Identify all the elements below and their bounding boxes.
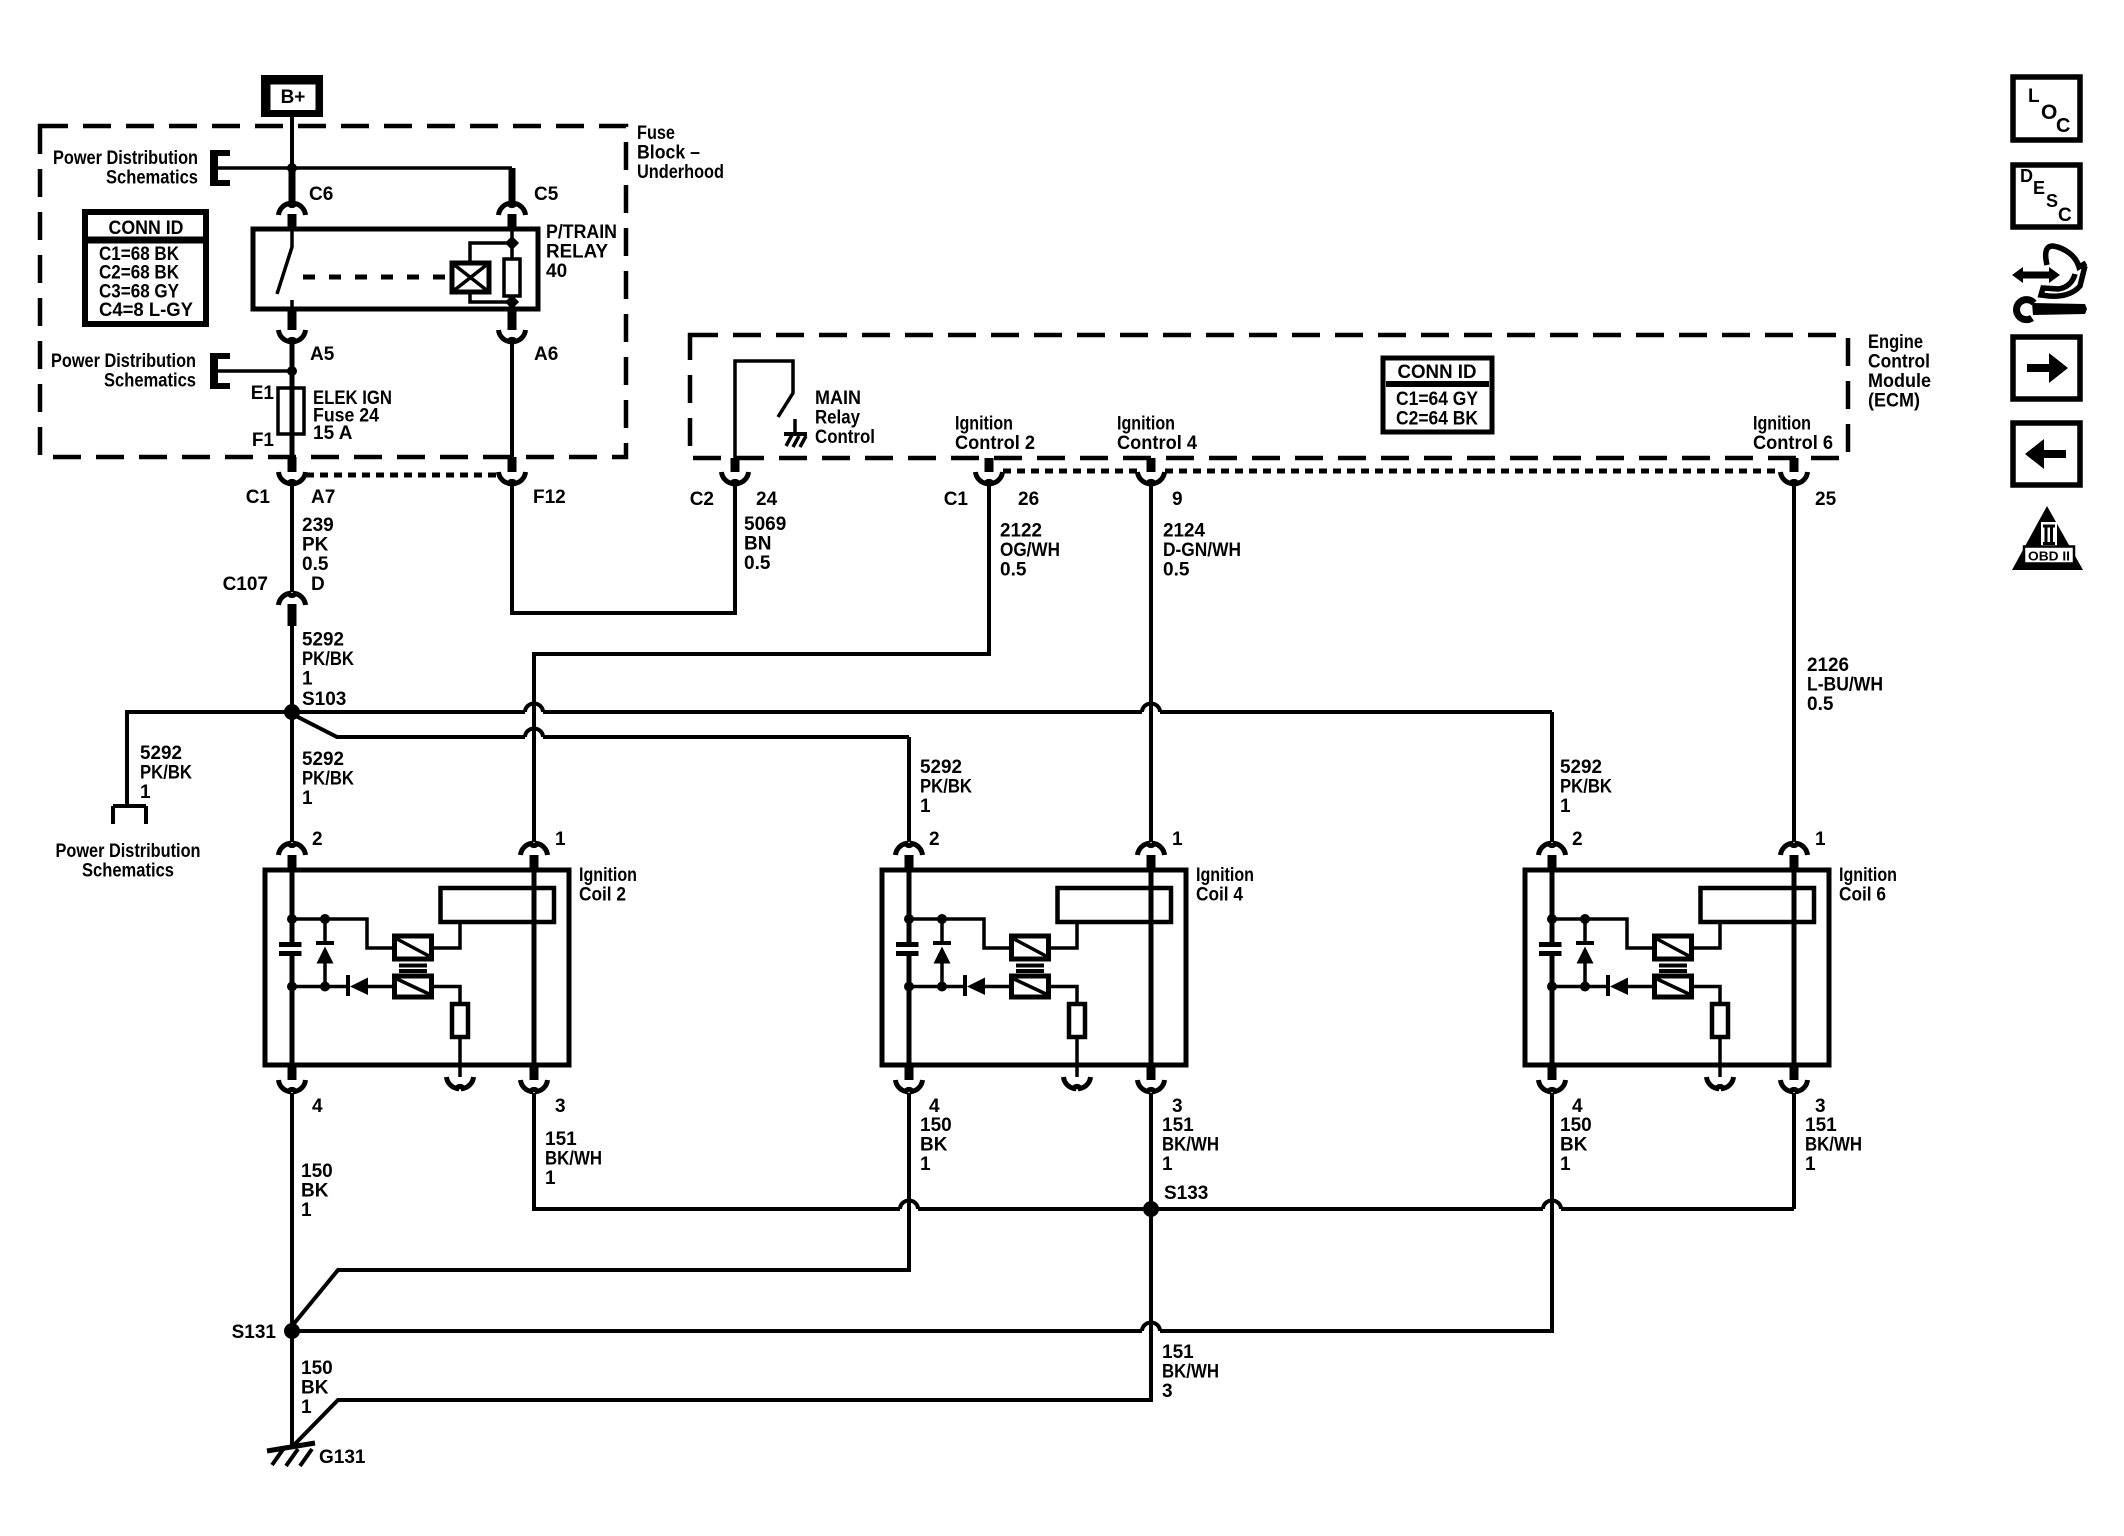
svg-text:5292: 5292 bbox=[920, 757, 962, 778]
svg-text:1: 1 bbox=[545, 1168, 556, 1189]
svg-text:C107: C107 bbox=[223, 574, 268, 595]
svg-text:Control: Control bbox=[815, 427, 875, 448]
svg-text:239: 239 bbox=[302, 515, 334, 536]
svg-text:D-GN/WH: D-GN/WH bbox=[1163, 540, 1241, 561]
svg-text:BK/WH: BK/WH bbox=[1805, 1135, 1862, 1156]
svg-text:PK/BK: PK/BK bbox=[302, 649, 354, 670]
svg-text:C5: C5 bbox=[534, 184, 559, 205]
svg-text:OG/WH: OG/WH bbox=[1000, 540, 1060, 561]
svg-text:BK/WH: BK/WH bbox=[545, 1149, 602, 1170]
svg-text:1: 1 bbox=[1560, 796, 1571, 817]
svg-text:Coil 2: Coil 2 bbox=[579, 885, 626, 906]
svg-text:24: 24 bbox=[756, 489, 778, 510]
svg-text:C: C bbox=[2058, 205, 2072, 226]
svg-text:C1=64 GY: C1=64 GY bbox=[1396, 389, 1478, 410]
svg-text:PK: PK bbox=[302, 535, 329, 556]
svg-text:1: 1 bbox=[1560, 1154, 1571, 1175]
svg-text:151: 151 bbox=[1162, 1342, 1194, 1363]
svg-text:5292: 5292 bbox=[302, 749, 344, 770]
svg-text:C1: C1 bbox=[246, 487, 271, 508]
svg-text:3: 3 bbox=[1815, 1096, 1826, 1117]
svg-text:S: S bbox=[2046, 191, 2058, 211]
svg-text:BK: BK bbox=[1560, 1135, 1588, 1156]
svg-text:151: 151 bbox=[545, 1129, 577, 1150]
svg-text:151: 151 bbox=[1805, 1115, 1837, 1136]
svg-text:25: 25 bbox=[1815, 489, 1837, 510]
svg-text:Engine: Engine bbox=[1868, 332, 1923, 353]
svg-text:1: 1 bbox=[301, 1200, 312, 1221]
svg-text:151: 151 bbox=[1162, 1115, 1194, 1136]
svg-text:Coil 6: Coil 6 bbox=[1839, 885, 1886, 906]
svg-text:BK/WH: BK/WH bbox=[1162, 1362, 1219, 1383]
svg-text:3: 3 bbox=[555, 1096, 566, 1117]
svg-text:S103: S103 bbox=[302, 689, 346, 710]
svg-text:Schematics: Schematics bbox=[82, 861, 174, 882]
svg-text:4: 4 bbox=[929, 1096, 940, 1117]
svg-text:BN: BN bbox=[744, 534, 771, 555]
svg-text:O: O bbox=[2041, 101, 2057, 124]
svg-text:2: 2 bbox=[929, 829, 940, 850]
svg-text:1: 1 bbox=[1162, 1154, 1173, 1175]
svg-text:0.5: 0.5 bbox=[1163, 560, 1190, 581]
svg-text:Schematics: Schematics bbox=[104, 371, 196, 392]
svg-text:0.5: 0.5 bbox=[302, 554, 329, 575]
svg-text:1: 1 bbox=[555, 829, 566, 850]
svg-text:150: 150 bbox=[301, 1161, 333, 1182]
svg-text:A5: A5 bbox=[310, 344, 335, 365]
svg-text:L: L bbox=[2028, 86, 2040, 107]
svg-text:2122: 2122 bbox=[1000, 521, 1042, 542]
svg-text:1: 1 bbox=[301, 1397, 312, 1418]
svg-text:G131: G131 bbox=[319, 1447, 366, 1468]
svg-text:2126: 2126 bbox=[1807, 655, 1849, 676]
svg-text:E1: E1 bbox=[251, 383, 275, 404]
svg-text:Module: Module bbox=[1868, 371, 1931, 392]
svg-text:F1: F1 bbox=[252, 430, 275, 451]
svg-text:C2: C2 bbox=[690, 489, 714, 510]
svg-text:Ignition: Ignition bbox=[1196, 865, 1254, 886]
svg-text:PK/BK: PK/BK bbox=[920, 777, 972, 798]
svg-text:26: 26 bbox=[1018, 489, 1039, 510]
svg-text:9: 9 bbox=[1172, 489, 1183, 510]
svg-text:A7: A7 bbox=[311, 487, 335, 508]
svg-text:150: 150 bbox=[301, 1358, 333, 1379]
svg-text:5069: 5069 bbox=[744, 514, 786, 535]
svg-text:C6: C6 bbox=[309, 184, 333, 205]
svg-text:BK: BK bbox=[301, 1181, 329, 1202]
svg-text:0.5: 0.5 bbox=[1000, 560, 1027, 581]
svg-text:2124: 2124 bbox=[1163, 521, 1205, 542]
svg-text:Ignition: Ignition bbox=[579, 865, 637, 886]
svg-text:P/TRAIN: P/TRAIN bbox=[546, 222, 617, 243]
svg-text:3: 3 bbox=[1172, 1096, 1183, 1117]
svg-text:Power Distribution: Power Distribution bbox=[53, 148, 198, 169]
svg-text:B+: B+ bbox=[281, 87, 306, 108]
svg-text:Schematics: Schematics bbox=[106, 168, 198, 189]
svg-text:S133: S133 bbox=[1164, 1183, 1208, 1204]
svg-text:15 A: 15 A bbox=[313, 423, 353, 444]
svg-text:2: 2 bbox=[1572, 829, 1583, 850]
svg-text:PK/BK: PK/BK bbox=[140, 763, 192, 784]
svg-text:Ignition: Ignition bbox=[955, 414, 1013, 435]
svg-text:Power Distribution: Power Distribution bbox=[51, 351, 196, 372]
svg-text:1: 1 bbox=[302, 788, 313, 809]
svg-text:Relay: Relay bbox=[815, 408, 860, 429]
svg-text:4: 4 bbox=[1572, 1096, 1583, 1117]
svg-text:1: 1 bbox=[140, 782, 151, 803]
svg-text:Ignition: Ignition bbox=[1839, 865, 1897, 886]
svg-text:Block –: Block – bbox=[637, 143, 700, 164]
svg-text:1: 1 bbox=[1815, 829, 1826, 850]
svg-text:PK/BK: PK/BK bbox=[1560, 777, 1612, 798]
svg-text:Fuse: Fuse bbox=[637, 123, 675, 144]
svg-text:CONN ID: CONN ID bbox=[1398, 362, 1477, 383]
svg-text:C4=8 L-GY: C4=8 L-GY bbox=[99, 300, 193, 321]
svg-text:D: D bbox=[311, 574, 325, 595]
svg-text:2: 2 bbox=[312, 829, 323, 850]
svg-text:1: 1 bbox=[920, 796, 931, 817]
svg-text:1: 1 bbox=[920, 1154, 931, 1175]
svg-text:4: 4 bbox=[312, 1096, 323, 1117]
svg-text:1: 1 bbox=[1805, 1154, 1816, 1175]
svg-text:C1: C1 bbox=[944, 489, 969, 510]
svg-text:1: 1 bbox=[302, 669, 313, 690]
svg-text:Control: Control bbox=[1868, 352, 1930, 373]
svg-text:RELAY: RELAY bbox=[546, 242, 608, 263]
svg-text:Coil 4: Coil 4 bbox=[1196, 885, 1243, 906]
svg-text:BK/WH: BK/WH bbox=[1162, 1135, 1219, 1156]
svg-text:MAIN: MAIN bbox=[815, 388, 861, 409]
svg-text:PK/BK: PK/BK bbox=[302, 769, 354, 790]
svg-text:Ignition: Ignition bbox=[1117, 414, 1175, 435]
svg-text:40: 40 bbox=[546, 261, 567, 282]
svg-text:150: 150 bbox=[1560, 1115, 1592, 1136]
svg-text:L-BU/WH: L-BU/WH bbox=[1807, 675, 1883, 696]
svg-text:D: D bbox=[2020, 166, 2033, 186]
svg-text:150: 150 bbox=[920, 1115, 952, 1136]
svg-text:E: E bbox=[2033, 178, 2045, 198]
svg-text:F12: F12 bbox=[533, 487, 566, 508]
svg-text:C: C bbox=[2056, 115, 2070, 137]
svg-text:3: 3 bbox=[1162, 1381, 1173, 1402]
svg-text:Ignition: Ignition bbox=[1753, 414, 1811, 435]
svg-text:CONN ID: CONN ID bbox=[109, 218, 184, 239]
svg-text:5292: 5292 bbox=[302, 630, 344, 651]
svg-text:BK: BK bbox=[301, 1378, 329, 1399]
svg-text:Control 4: Control 4 bbox=[1117, 433, 1197, 454]
svg-text:(ECM): (ECM) bbox=[1868, 391, 1920, 412]
svg-text:Control 6: Control 6 bbox=[1753, 433, 1833, 454]
svg-text:OBD II: OBD II bbox=[2028, 549, 2070, 564]
svg-text:Underhood: Underhood bbox=[637, 162, 724, 183]
svg-text:0.5: 0.5 bbox=[1807, 694, 1834, 715]
svg-text:C2=64 BK: C2=64 BK bbox=[1396, 409, 1478, 430]
svg-text:5292: 5292 bbox=[1560, 757, 1602, 778]
svg-text:5292: 5292 bbox=[140, 743, 182, 764]
svg-text:0.5: 0.5 bbox=[744, 553, 771, 574]
svg-text:1: 1 bbox=[1172, 829, 1183, 850]
svg-text:S131: S131 bbox=[232, 1322, 277, 1343]
svg-text:A6: A6 bbox=[534, 344, 558, 365]
svg-text:Power Distribution: Power Distribution bbox=[56, 841, 201, 862]
svg-text:BK: BK bbox=[920, 1135, 948, 1156]
svg-text:Control 2: Control 2 bbox=[955, 433, 1035, 454]
